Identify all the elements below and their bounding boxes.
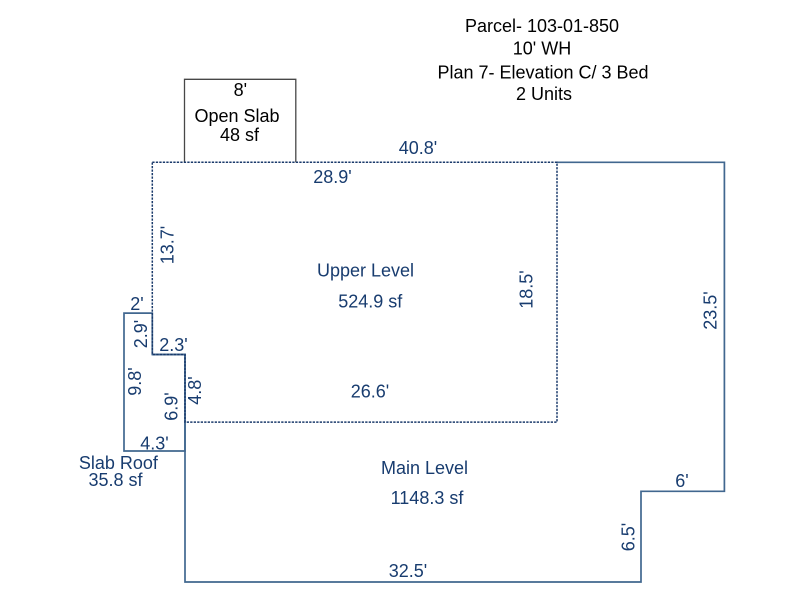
svg-text:1148.3 sf: 1148.3 sf bbox=[391, 488, 465, 508]
svg-text:524.9 sf: 524.9 sf bbox=[338, 292, 403, 312]
svg-text:2.9': 2.9' bbox=[131, 320, 151, 348]
svg-text:6': 6' bbox=[675, 471, 688, 491]
svg-text:10' WH: 10' WH bbox=[513, 39, 571, 59]
svg-text:13.7': 13.7' bbox=[158, 226, 178, 264]
svg-text:6.5': 6.5' bbox=[619, 523, 639, 551]
svg-text:6.9': 6.9' bbox=[162, 392, 182, 420]
svg-text:2': 2' bbox=[130, 294, 143, 314]
svg-text:40.8': 40.8' bbox=[399, 138, 437, 158]
svg-text:23.5': 23.5' bbox=[701, 291, 721, 329]
svg-text:2.3': 2.3' bbox=[159, 335, 187, 355]
svg-text:48 sf: 48 sf bbox=[220, 125, 260, 145]
svg-text:32.5': 32.5' bbox=[389, 561, 427, 581]
svg-text:Parcel- 103-01-850: Parcel- 103-01-850 bbox=[465, 16, 619, 36]
svg-text:2 Units: 2 Units bbox=[516, 84, 572, 104]
svg-text:4.3': 4.3' bbox=[140, 434, 168, 454]
svg-text:Open Slab: Open Slab bbox=[194, 106, 279, 126]
svg-text:Main Level: Main Level bbox=[381, 458, 468, 478]
svg-text:4.8': 4.8' bbox=[185, 376, 205, 404]
svg-text:Upper Level: Upper Level bbox=[317, 261, 414, 281]
svg-text:Plan 7- Elevation C/ 3 Bed: Plan 7- Elevation C/ 3 Bed bbox=[437, 63, 648, 83]
svg-text:9.8': 9.8' bbox=[125, 367, 145, 395]
svg-text:26.6': 26.6' bbox=[351, 382, 389, 402]
svg-text:28.9': 28.9' bbox=[313, 167, 351, 187]
svg-text:8': 8' bbox=[234, 80, 247, 100]
svg-text:35.8 sf: 35.8 sf bbox=[88, 470, 143, 490]
svg-text:18.5': 18.5' bbox=[517, 270, 537, 308]
